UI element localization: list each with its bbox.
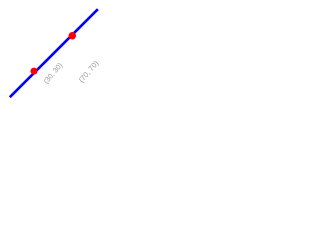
node A: [31, 68, 38, 75]
node B: [69, 32, 77, 40]
wire: [10, 9, 98, 97]
svg-text:(70, 70): (70, 70): [77, 58, 101, 84]
svg-text:(30, 30): (30, 30): [41, 61, 64, 86]
